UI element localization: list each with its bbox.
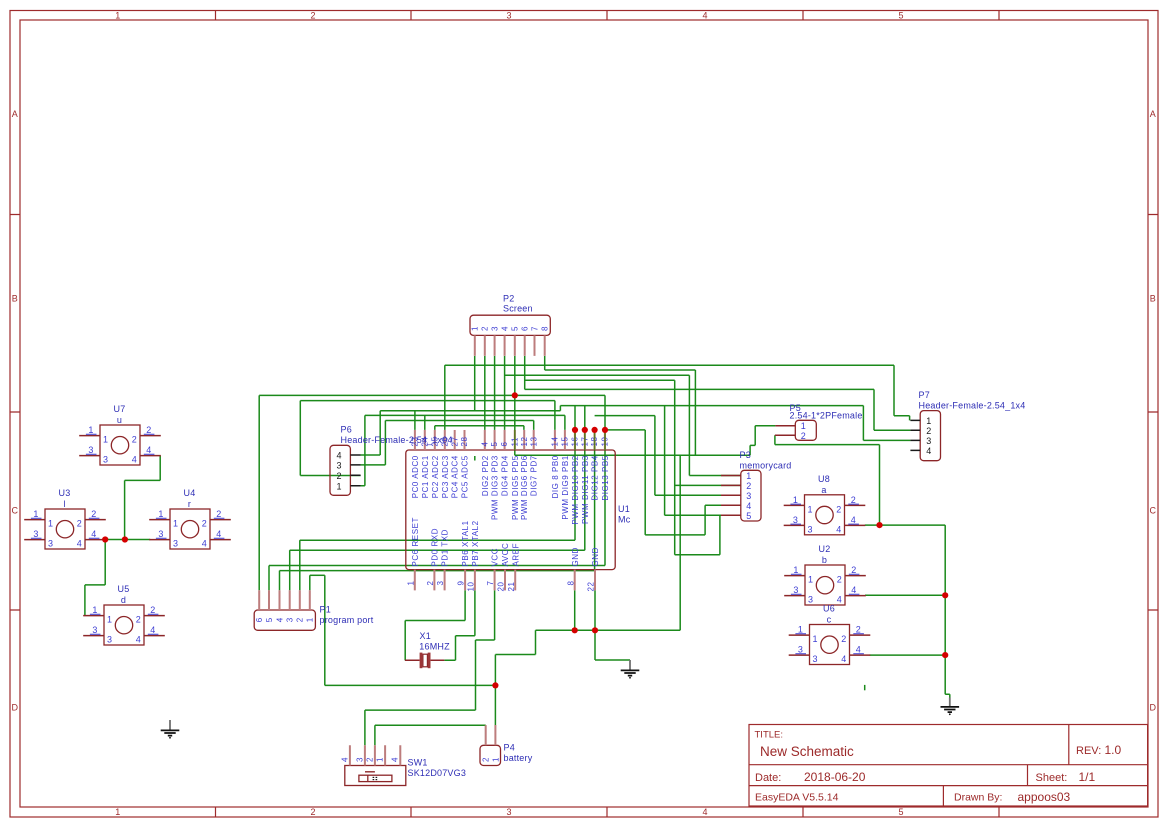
svg-text:13: 13	[529, 436, 538, 446]
svg-text:2: 2	[310, 807, 315, 817]
svg-text:a: a	[821, 485, 826, 495]
svg-text:Screen: Screen	[503, 304, 533, 314]
svg-text:3: 3	[48, 539, 53, 549]
svg-text:VCC: VCC	[491, 548, 500, 567]
svg-text:U5: U5	[118, 584, 130, 594]
svg-text:5: 5	[746, 511, 751, 521]
frame column numbers bottom	[115, 807, 903, 817]
svg-text:1: 1	[103, 435, 108, 445]
button U8	[784, 474, 866, 535]
wire pin17 riser to y405	[584, 406, 586, 430]
node pin18 junction	[592, 427, 598, 433]
wire y420 line to U1-13	[385, 421, 533, 430]
wire gnd rail	[536, 629, 681, 631]
svg-text:4: 4	[77, 539, 82, 549]
wire P1-2 riser	[299, 540, 301, 590]
svg-text:1: 1	[306, 617, 315, 622]
svg-text:3: 3	[490, 326, 499, 331]
node U3 net junction right	[122, 536, 128, 542]
svg-text:r: r	[188, 499, 191, 509]
svg-text:1: 1	[808, 504, 813, 514]
wire U7-4 down	[159, 456, 161, 481]
svg-text:u: u	[117, 415, 122, 425]
svg-text:d: d	[121, 595, 126, 605]
wire P1-3 line to pin17	[290, 430, 585, 550]
svg-text:P2: P2	[503, 294, 514, 304]
wire P1-1 riser	[309, 575, 311, 590]
frame column ticks bottom	[216, 807, 1000, 817]
wire U1-8 gnd drop	[574, 590, 576, 630]
svg-text:1: 1	[115, 11, 120, 21]
svg-text:Mc: Mc	[618, 515, 631, 525]
svg-text:3: 3	[355, 757, 364, 762]
svg-text:2: 2	[851, 565, 856, 575]
wire P5-1 staircase	[750, 426, 775, 456]
svg-text:4: 4	[340, 757, 349, 762]
svg-text:GND: GND	[571, 547, 580, 566]
svg-text:3: 3	[88, 445, 93, 455]
svg-text:2: 2	[481, 326, 490, 331]
svg-text:5: 5	[898, 11, 903, 21]
svg-text:memorycard: memorycard	[740, 461, 792, 471]
frame row ticks left	[10, 215, 20, 611]
svg-text:1: 1	[33, 509, 38, 519]
svg-text:4: 4	[500, 326, 509, 331]
svg-text:4: 4	[837, 595, 842, 605]
svg-text:4: 4	[841, 654, 846, 664]
svg-text:1: 1	[793, 495, 798, 505]
wire P1-6 riser	[258, 395, 260, 590]
svg-text:1: 1	[158, 509, 163, 519]
wire P2-5 down through junction to U1-11	[514, 356, 516, 455]
svg-text:2: 2	[337, 471, 342, 481]
wire U1-9 to crystal left	[405, 590, 465, 660]
svg-text:4: 4	[216, 529, 221, 539]
wire P6-2 to U1-14	[300, 401, 555, 476]
svg-text:6: 6	[521, 326, 530, 331]
frame column numbers top	[115, 11, 903, 21]
svg-text:3: 3	[337, 460, 342, 470]
wire y405 line to P7-3	[560, 406, 910, 441]
svg-text:2: 2	[746, 481, 751, 491]
svg-text:A: A	[12, 109, 18, 119]
svg-text:PC2 ADC2: PC2 ADC2	[431, 455, 440, 498]
svg-text:2: 2	[136, 615, 141, 625]
svg-text:1: 1	[808, 575, 813, 585]
node pin16 junction	[572, 427, 578, 433]
svg-text:1/1: 1/1	[1079, 770, 1096, 784]
svg-text:U3: U3	[59, 488, 71, 498]
wire P1-3 riser	[289, 550, 291, 590]
svg-text:PWM DIG5 PD5: PWM DIG5 PD5	[511, 455, 520, 520]
svg-text:2: 2	[91, 509, 96, 519]
svg-text:GND: GND	[591, 547, 600, 566]
svg-text:6: 6	[255, 617, 264, 622]
svg-text:1: 1	[376, 757, 385, 762]
wire P2-3 to U1-5	[494, 356, 496, 430]
wire battery net horizontal	[325, 684, 496, 686]
node gnd rail junction 1	[572, 627, 578, 633]
svg-text:PWM DIG3 PD3: PWM DIG3 PD3	[491, 455, 500, 520]
header P2 Screen	[470, 315, 550, 335]
svg-text:Drawn By:: Drawn By:	[954, 792, 1002, 804]
svg-text:DIG 8 PB0: DIG 8 PB0	[551, 455, 560, 498]
U1 top pin numbers	[411, 436, 610, 446]
svg-text:New Schematic: New Schematic	[760, 744, 854, 759]
wire P2-8 drop and y370	[545, 356, 696, 370]
wire stub near U6	[864, 685, 866, 690]
svg-text:Header-Female-2.54_1x4: Header-Female-2.54_1x4	[919, 401, 1026, 411]
frame row letters right	[1150, 109, 1157, 713]
svg-text:3: 3	[793, 515, 798, 525]
svg-text:appoos03: appoos03	[1018, 790, 1071, 804]
svg-text:3: 3	[798, 645, 803, 655]
svg-text:16MHZ: 16MHZ	[419, 641, 450, 651]
header P4 battery	[480, 745, 501, 765]
wire P5-2 staircase	[775, 435, 880, 525]
svg-text:AVCC: AVCC	[501, 543, 510, 567]
node P2-5/U1-11 junction	[512, 392, 518, 398]
svg-text:3: 3	[173, 539, 178, 549]
button U3	[24, 488, 106, 549]
svg-text:1: 1	[746, 471, 751, 481]
wire U5 branch down	[104, 540, 106, 585]
wire P1-4 line to pin18	[280, 430, 595, 571]
svg-text:2: 2	[216, 509, 221, 519]
svg-text:12: 12	[520, 436, 529, 446]
wire U1-23 riser	[414, 411, 416, 430]
wire U6-4 branch	[870, 654, 946, 656]
button U5	[83, 584, 165, 645]
svg-text:D: D	[1150, 703, 1157, 713]
svg-text:1: 1	[801, 421, 806, 431]
svg-text:1: 1	[491, 757, 500, 762]
wire pin18 east route to P3-3	[595, 416, 741, 496]
svg-text:DIG2 PD2: DIG2 PD2	[481, 455, 490, 496]
wire U1-22 gnd drop	[594, 590, 596, 630]
svg-text:PC6 RESET: PC6 RESET	[411, 517, 420, 566]
wire P6-3 riser	[361, 421, 386, 465]
button U2	[784, 544, 866, 605]
svg-text:4: 4	[746, 501, 751, 511]
svg-text:4: 4	[337, 451, 342, 461]
svg-text:SK12D07VG3: SK12D07VG3	[408, 768, 467, 778]
wire P3-5 horizontal	[665, 514, 741, 516]
svg-text:1: 1	[115, 807, 120, 817]
wire U1-10 to crystal right	[444, 590, 475, 660]
wire x674 drop	[674, 380, 676, 555]
svg-text:7: 7	[530, 326, 539, 331]
svg-text:AREF: AREF	[511, 543, 520, 567]
svg-text:15: 15	[561, 436, 570, 446]
svg-text:7: 7	[486, 580, 495, 585]
svg-text:2: 2	[296, 617, 305, 622]
svg-text:1: 1	[926, 416, 931, 426]
svg-text:1: 1	[406, 580, 415, 585]
svg-text:3: 3	[746, 491, 751, 501]
svg-text:U4: U4	[184, 488, 196, 498]
svg-text:1: 1	[92, 605, 97, 615]
wire gnd rail riser	[679, 455, 681, 630]
svg-text:B: B	[12, 294, 18, 304]
svg-text:PWM DIG11 PB3: PWM DIG11 PB3	[581, 455, 590, 524]
svg-text:2: 2	[837, 575, 842, 585]
svg-text:Date:: Date:	[755, 772, 781, 784]
svg-text:22: 22	[587, 581, 596, 591]
svg-text:4: 4	[132, 455, 137, 465]
svg-text:3: 3	[286, 617, 295, 622]
node gnd rail junction 2	[592, 627, 598, 633]
svg-text:2: 2	[310, 11, 315, 21]
svg-text:3: 3	[103, 455, 108, 465]
svg-text:4: 4	[702, 807, 707, 817]
svg-text:EasyEDA V5.5.14: EasyEDA V5.5.14	[755, 792, 839, 804]
wire U1-25 line to U1-12	[435, 426, 524, 430]
svg-text:1: 1	[793, 565, 798, 575]
svg-text:REV:: REV:	[1076, 745, 1101, 757]
wire P2-2 to U1-4	[484, 356, 486, 430]
svg-text:PB7 XTAL2: PB7 XTAL2	[471, 520, 480, 566]
node U6-4 junction	[942, 652, 948, 658]
title block	[749, 725, 1148, 807]
frame row ticks right	[1148, 215, 1158, 611]
svg-text:3: 3	[92, 625, 97, 635]
svg-text:2: 2	[841, 634, 846, 644]
wire SW1-2 to P4-2	[375, 725, 486, 745]
wire P1-1 jog	[310, 574, 325, 576]
wire y395 east end down to pin19 junction	[604, 395, 606, 565]
frame row letters left	[12, 109, 19, 713]
svg-text:U6: U6	[823, 604, 835, 614]
wire stub inside U1	[474, 456, 476, 461]
svg-text:3: 3	[506, 807, 511, 817]
svg-text:3: 3	[33, 529, 38, 539]
wire net P1-6 horizontal y395	[259, 394, 605, 396]
svg-text:X1: X1	[420, 631, 431, 641]
svg-text:3: 3	[436, 580, 445, 585]
svg-text:8: 8	[566, 580, 575, 585]
svg-text:A: A	[1150, 109, 1156, 119]
wire y410 line	[380, 410, 560, 412]
svg-text:4: 4	[926, 446, 931, 456]
wire P3-1 riser	[689, 375, 740, 475]
wire y380 line	[525, 379, 675, 381]
svg-text:14: 14	[551, 436, 560, 446]
svg-text:4: 4	[836, 524, 841, 534]
svg-text:C: C	[1150, 506, 1157, 516]
ground middle	[621, 660, 640, 679]
svg-text:3: 3	[808, 595, 813, 605]
svg-text:PD1 TXD: PD1 TXD	[441, 529, 450, 567]
wire P1-4 riser	[279, 571, 281, 591]
svg-text:PC5 ADC5: PC5 ADC5	[461, 455, 470, 498]
svg-text:Header-Female-2.54_1x04: Header-Female-2.54_1x04	[341, 435, 453, 445]
svg-text:2: 2	[851, 495, 856, 505]
svg-text:3: 3	[808, 524, 813, 534]
wire overlays over pin stubs (olive blend)	[515, 430, 605, 450]
svg-text:PB6 XTAL1: PB6 XTAL1	[461, 520, 470, 566]
svg-text:4: 4	[275, 617, 284, 622]
svg-text:l: l	[63, 499, 65, 509]
wire jog y410 to y405	[559, 406, 561, 411]
svg-text:PWM DIG6 PD6: PWM DIG6 PD6	[520, 455, 529, 520]
svg-text:1: 1	[471, 326, 480, 331]
svg-text:4: 4	[146, 445, 151, 455]
svg-text:3: 3	[926, 436, 931, 446]
svg-text:P1: P1	[320, 605, 331, 615]
svg-text:P7: P7	[919, 390, 930, 400]
svg-text:DIG4 PD4: DIG4 PD4	[501, 455, 510, 496]
wire P2-4 drop to U1-6	[504, 356, 506, 430]
wire P6-4 riser	[361, 411, 381, 455]
header P3 memorycard	[741, 470, 761, 521]
svg-text:10: 10	[467, 581, 476, 591]
svg-text:21: 21	[507, 581, 516, 591]
svg-text:DIG7 PD7: DIG7 PD7	[530, 455, 539, 496]
wire P1-5 line to pin19	[269, 565, 605, 567]
svg-text:PC1 ADC1: PC1 ADC1	[421, 455, 430, 498]
svg-text:B: B	[1150, 294, 1156, 304]
header P7	[920, 411, 940, 461]
svg-text:5: 5	[511, 326, 520, 331]
wire U1-7 VCC drop	[476, 590, 495, 710]
svg-text:2: 2	[146, 425, 151, 435]
svg-text:PWM DIG9 PB1: PWM DIG9 PB1	[561, 455, 570, 519]
svg-text:3: 3	[158, 529, 163, 539]
svg-text:4: 4	[851, 515, 856, 525]
wire P1-1 down long	[324, 575, 326, 685]
svg-text:P4: P4	[504, 743, 515, 753]
svg-text:4: 4	[702, 11, 707, 21]
wire y389 to P7-2	[525, 389, 911, 430]
svg-text:4: 4	[150, 625, 155, 635]
svg-text:1: 1	[337, 481, 342, 491]
wire y370 drop to gnd line	[694, 370, 696, 455]
node pin19 junction	[602, 427, 608, 433]
wire P4-1 riser staircase	[495, 630, 535, 725]
button U6	[789, 604, 871, 665]
svg-text:3: 3	[107, 635, 112, 645]
wire P2-1 drop	[474, 356, 476, 411]
svg-text:TITLE:: TITLE:	[755, 730, 784, 741]
node U8-4 junction	[876, 522, 882, 528]
svg-text:3: 3	[813, 654, 818, 664]
ground left isolated	[161, 720, 180, 739]
svg-text:U7: U7	[114, 404, 126, 414]
wire U2-4 branch	[865, 594, 945, 596]
svg-text:20: 20	[497, 581, 506, 591]
op U1 MCU body	[406, 450, 615, 570]
svg-text:2: 2	[926, 426, 931, 436]
svg-text:program port: program port	[320, 615, 374, 625]
wire pin19 junction east	[605, 429, 645, 431]
U1 bottom pin stubs	[415, 570, 595, 591]
wire VCC to SW1-3	[365, 710, 476, 745]
wire P1-5 riser	[268, 566, 270, 591]
U1 top pin labels	[411, 455, 610, 524]
svg-text:4: 4	[856, 645, 861, 655]
svg-text:2: 2	[836, 504, 841, 514]
svg-text:P3: P3	[740, 450, 751, 460]
svg-text:2: 2	[365, 757, 374, 762]
svg-text:1: 1	[48, 519, 53, 529]
svg-text:DIG13 PB5: DIG13 PB5	[601, 455, 610, 500]
svg-text:5: 5	[265, 617, 274, 622]
wire U5 branch horizontal	[85, 584, 105, 586]
svg-text:1.0: 1.0	[1105, 743, 1122, 757]
node battery junction	[492, 682, 498, 688]
wire y375 P2-4 branch	[505, 374, 690, 376]
svg-text:b: b	[822, 555, 827, 565]
svg-text:U2: U2	[819, 544, 831, 554]
header P5	[795, 420, 816, 440]
wire U1-26 riser	[444, 365, 446, 430]
svg-text:28: 28	[460, 436, 469, 446]
svg-text:P6: P6	[341, 425, 352, 435]
wire U8-4 net	[865, 524, 945, 526]
svg-text:4: 4	[136, 635, 141, 645]
wire U3-4 to U4-3	[105, 539, 151, 541]
svg-text:Sheet:: Sheet:	[1036, 772, 1068, 784]
wire U7 to U3 net horizontal	[125, 479, 161, 481]
svg-text:1: 1	[88, 425, 93, 435]
frame column ticks top	[216, 11, 1000, 21]
svg-text:PC3 ADC3: PC3 ADC3	[441, 455, 450, 498]
svg-text:8: 8	[541, 326, 550, 331]
node U3 net junction left	[102, 536, 108, 542]
svg-text:2: 2	[856, 625, 861, 635]
svg-text:9: 9	[457, 580, 466, 585]
button U4	[149, 488, 231, 549]
svg-text:1: 1	[173, 519, 178, 529]
svg-text:DIG12 PB4: DIG12 PB4	[591, 455, 600, 500]
wire pin19 east route to P3-4	[645, 430, 741, 535]
wire x664 drop from y405	[664, 406, 666, 516]
wire P3-2 branch	[675, 484, 741, 486]
svg-text:1: 1	[107, 615, 112, 625]
svg-text:2: 2	[150, 605, 155, 615]
header P1 program port	[254, 610, 315, 630]
svg-text:2: 2	[801, 431, 806, 441]
svg-text:PD0 RXD: PD0 RXD	[431, 528, 440, 567]
svg-text:2: 2	[482, 757, 491, 762]
wire y415 line to U1-15	[365, 415, 565, 430]
svg-text:PWM DIG10 PB2: PWM DIG10 PB2	[571, 455, 580, 524]
svg-text:U1: U1	[618, 504, 630, 514]
svg-text:1: 1	[813, 634, 818, 644]
wire P6-1 riser	[361, 415, 365, 485]
U1 bottom pin numbers	[406, 580, 595, 591]
wire gnd symbol feed	[595, 630, 630, 660]
svg-text:2: 2	[202, 519, 207, 529]
wire U5 branch to U5-1	[84, 585, 86, 616]
node pin17 junction	[582, 427, 588, 433]
svg-text:3: 3	[506, 11, 511, 21]
wire east vertical to ground	[945, 525, 950, 697]
wire P1-2 line to pin16	[300, 430, 575, 540]
wire P2-6 drop	[524, 356, 526, 389]
ground right	[941, 698, 960, 716]
wire U1-26 to P7-1 long y365	[445, 364, 894, 366]
wire U7 branch down to U3-U4 net	[124, 480, 126, 539]
button U7	[79, 404, 161, 465]
svg-text:4: 4	[480, 441, 489, 446]
wire y554 branch to P3-5	[675, 515, 720, 555]
U1 bottom pin labels	[411, 517, 600, 566]
U1 top pin stubs	[415, 430, 605, 450]
svg-text:1: 1	[798, 625, 803, 635]
wire U1-24 riser	[424, 415, 426, 430]
